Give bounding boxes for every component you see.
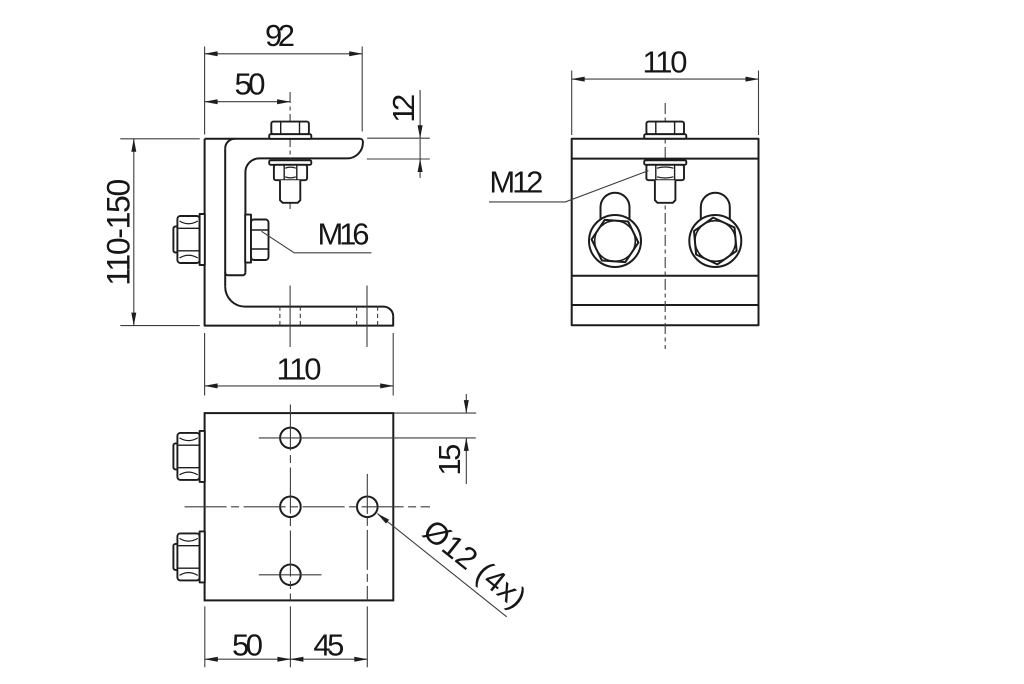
dimension 110-150 (height) bbox=[120, 139, 200, 326]
M12 bolt (front view) bbox=[644, 122, 686, 203]
hole bottom bbox=[280, 565, 301, 586]
M12 bolt (side view) bbox=[269, 122, 311, 203]
dimension 92 bbox=[205, 47, 363, 135]
hole middle bbox=[280, 497, 301, 518]
svg-text:45: 45 bbox=[313, 627, 344, 662]
slot left bbox=[601, 193, 630, 220]
svg-text:15: 15 bbox=[432, 444, 467, 476]
M12 label with leader bbox=[489, 171, 648, 202]
body outline bbox=[572, 139, 759, 326]
head bbox=[271, 122, 309, 135]
protruding thread end (left) bbox=[173, 227, 178, 253]
dimension 110 (bottom flange width) bbox=[205, 333, 394, 396]
M16 bolt lower (bottom view) bbox=[173, 531, 204, 582]
washer under plate bbox=[269, 160, 311, 165]
svg-text:M16: M16 bbox=[318, 217, 370, 252]
hex head (right) bbox=[251, 220, 269, 261]
centerlines bottom view bbox=[185, 405, 476, 601]
base L-piece outer contour: right end, bottom edge, web outer face bbox=[205, 139, 394, 326]
dimension 110 (front view) bbox=[572, 71, 759, 136]
svg-text:Ø12 (4x): Ø12 (4x) bbox=[417, 513, 533, 616]
svg-text:50: 50 bbox=[235, 67, 266, 102]
threaded shaft bbox=[655, 180, 676, 203]
dimension 15 bbox=[394, 394, 476, 484]
clamp leg bottom end bbox=[225, 272, 245, 275]
M16 bolt upper (bottom view) bbox=[173, 431, 204, 482]
head bbox=[646, 122, 684, 135]
nut bbox=[646, 165, 684, 180]
top plate lower edge bbox=[572, 158, 759, 160]
M16 bolt through web (side view) bbox=[173, 214, 268, 265]
Ø12 (4x) label with leader bbox=[377, 514, 506, 617]
svg-text:110: 110 bbox=[277, 352, 322, 387]
hole right bbox=[357, 497, 378, 518]
M16 bolt head left (washer + hex + chamfer circle) bbox=[589, 215, 641, 267]
bottom flange top surface with big inner fillet and end corner radius bbox=[225, 287, 393, 317]
M16 label with leader bbox=[262, 231, 372, 253]
base plate bbox=[205, 413, 394, 600]
bottom flange bend tangent bbox=[572, 304, 759, 306]
M12 bolt centerline (side view) bbox=[289, 92, 291, 209]
hex nut (left) bbox=[177, 216, 199, 263]
threaded shaft bbox=[280, 180, 300, 203]
centerline (front view) bbox=[664, 103, 666, 349]
hidden hole edges bbox=[280, 307, 378, 326]
nut bbox=[274, 165, 307, 180]
washer (left, against web) bbox=[200, 214, 205, 265]
hole top bbox=[280, 428, 301, 449]
svg-text:110: 110 bbox=[643, 45, 688, 80]
svg-text:12: 12 bbox=[386, 94, 421, 123]
slot right bbox=[701, 193, 730, 220]
washer (right, against clamp leg) bbox=[245, 215, 251, 263]
washer on plate bbox=[644, 134, 686, 139]
hole centerlines on bottom flange bbox=[280, 286, 378, 348]
clamp piece outer bend radius (top-left) bbox=[225, 139, 235, 149]
M16 bolt head right bbox=[689, 215, 741, 267]
washer under plate bbox=[644, 160, 686, 165]
dimension 50 bbox=[205, 101, 291, 103]
washer under head bbox=[269, 134, 311, 139]
svg-text:110-150: 110-150 bbox=[100, 179, 136, 286]
svg-text:M12: M12 bbox=[489, 164, 543, 199]
top edge of web and top plate bbox=[205, 138, 361, 140]
clamp leg bottom edge bbox=[572, 275, 759, 277]
dimension 12 (plate thickness) bbox=[367, 90, 430, 178]
svg-text:50: 50 bbox=[232, 627, 263, 662]
dimensions 50 / 45 bbox=[205, 606, 367, 667]
top plate rounded tip, bottom surface, inner fillet, leg right face bbox=[245, 139, 363, 273]
svg-text:92: 92 bbox=[265, 18, 295, 53]
web inner face / clamp leg front face bbox=[224, 148, 226, 286]
